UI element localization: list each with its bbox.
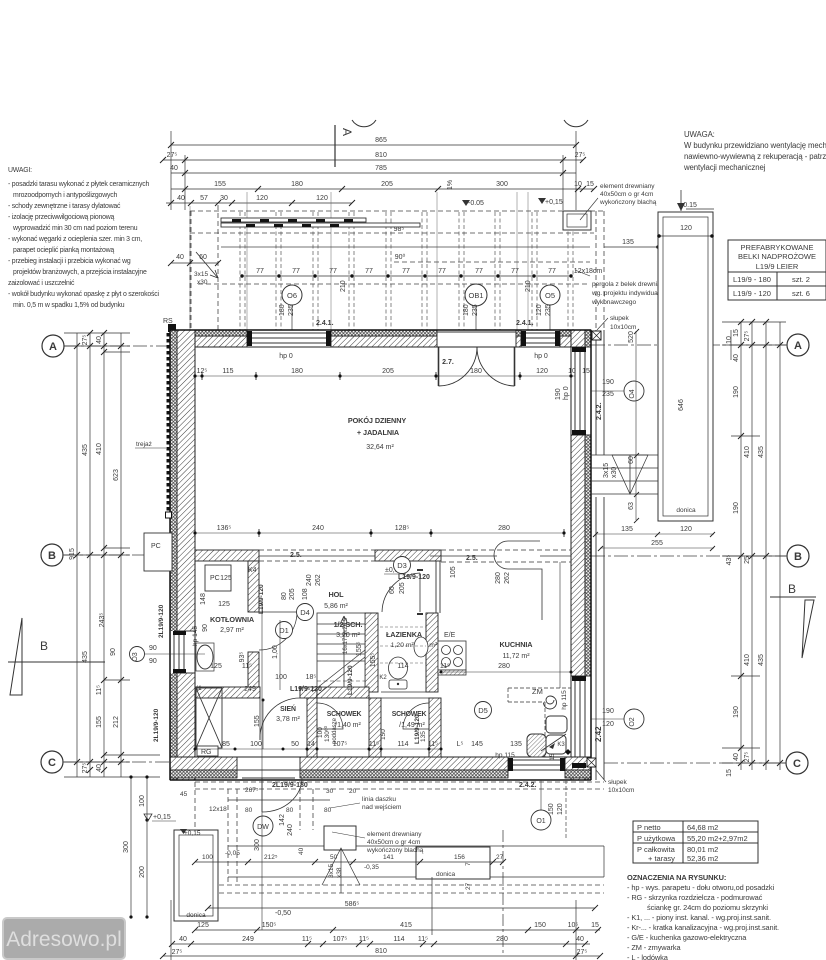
svg-text:- schody zewnętrzne i tarasy d: - schody zewnętrzne i tarasy dylatować: [8, 203, 121, 210]
svg-text:235: 235: [545, 304, 552, 316]
svg-text:100: 100: [250, 741, 262, 748]
svg-text:11⁵: 11⁵: [302, 936, 312, 943]
svg-text:linia daszku: linia daszku: [362, 796, 396, 803]
right dimension chain lines: [722, 322, 786, 770]
svg-text:180: 180: [291, 181, 303, 188]
pergola solid support line: [221, 246, 590, 248]
entry canopy lines: [228, 800, 604, 877]
svg-text:donica: donica: [436, 871, 456, 878]
interior face lines: [195, 347, 571, 757]
pergola 77 spacing dimension row: [242, 275, 571, 277]
wall living/hol left segment: [195, 550, 259, 561]
toilet: [389, 657, 408, 689]
svg-text:180: 180: [463, 304, 470, 316]
svg-text:646: 646: [678, 399, 685, 411]
left wall window O3 opening: [169, 631, 196, 673]
svg-text:27⁵: 27⁵: [167, 152, 178, 159]
bottom wall kitchen window opening: [508, 757, 565, 778]
top wall french door OB1 with arcs: [437, 330, 516, 386]
svg-text:200: 200: [139, 866, 146, 878]
top wall window W1 frame: [247, 330, 331, 347]
svg-text:2.4.1.: 2.4.1.: [316, 320, 334, 327]
grid axis C dash-dot line: [63, 761, 170, 763]
svg-text:915: 915: [69, 548, 76, 560]
svg-text:100: 100: [139, 795, 146, 807]
svg-text:zaizolować i uszczelnić: zaizolować i uszczelnić: [8, 280, 75, 287]
svg-text:hp 0: hp 0: [279, 353, 293, 360]
washbasin bathroom: [414, 637, 428, 657]
schowek1/schowek2 wall: [369, 698, 381, 757]
svg-text:B: B: [40, 639, 48, 653]
grid axis A dash-dot line: [63, 345, 787, 763]
svg-text:135: 135: [621, 526, 633, 533]
PC box outside left: [144, 533, 172, 571]
svg-text:szt. 6: szt. 6: [792, 289, 810, 298]
svg-text:410: 410: [744, 654, 751, 666]
svg-text:105: 105: [450, 566, 457, 578]
svg-text:27⁵: 27⁵: [82, 763, 89, 774]
svg-text:120: 120: [536, 304, 543, 316]
svg-text:3,78 m²: 3,78 m²: [276, 716, 300, 723]
svg-text:14: 14: [307, 741, 315, 748]
svg-text:40: 40: [733, 753, 740, 761]
left wall insulation: [170, 330, 177, 780]
hol interior dims: [248, 566, 457, 656]
svg-text:280: 280: [496, 936, 508, 943]
svg-text:B: B: [788, 582, 796, 596]
svg-text:148: 148: [200, 593, 207, 605]
svg-text:300: 300: [254, 839, 261, 851]
svg-text:donica: donica: [186, 912, 206, 919]
svg-text:156: 156: [454, 854, 465, 861]
svg-text:27⁵: 27⁵: [172, 949, 183, 956]
top wall window W2 frame: [521, 330, 560, 347]
building outer edge lines: [170, 330, 591, 780]
svg-text:40: 40: [96, 764, 103, 772]
svg-text:L19/9 LEIER: L19/9 LEIER: [756, 262, 799, 271]
svg-text:145: 145: [471, 741, 483, 748]
svg-text:POKÓJ DZIENNY: POKÓJ DZIENNY: [348, 416, 407, 425]
schowek2/kitchen wall: [429, 698, 441, 757]
svg-text:810: 810: [375, 948, 387, 955]
section B arrow right: [770, 597, 816, 658]
Kr spiral: [544, 696, 557, 709]
svg-text:PREFABRYKOWANE: PREFABRYKOWANE: [741, 243, 814, 252]
svg-text:2L19/9-120: 2L19/9-120: [158, 604, 165, 638]
grid bubble A right: [787, 334, 809, 356]
svg-text:element drewniany: element drewniany: [600, 183, 655, 190]
svg-text:10: 10: [568, 368, 576, 375]
kitchen dims: [379, 572, 572, 760]
right wall masonry: [571, 330, 585, 780]
svg-text:865: 865: [375, 137, 387, 144]
svg-text:10: 10: [726, 336, 733, 344]
svg-text:205: 205: [289, 588, 296, 600]
slupek square top right: [592, 331, 601, 340]
svg-text:205: 205: [399, 582, 406, 594]
svg-text:93⁵: 93⁵: [239, 652, 246, 663]
svg-text:205: 205: [381, 181, 393, 188]
svg-text:108: 108: [302, 588, 309, 600]
slupek label bottom right: [596, 770, 634, 794]
sien dims: [195, 748, 440, 750]
svg-text:243⁵: 243⁵: [99, 613, 106, 628]
grid bubble B right: [787, 545, 809, 567]
svg-text:142: 142: [279, 814, 286, 826]
level marks pergola: [340, 180, 563, 292]
svg-text:O4: O4: [629, 389, 636, 398]
svg-text:77: 77: [548, 268, 556, 275]
DW circle: [253, 816, 273, 836]
svg-text:141: 141: [383, 854, 394, 861]
svg-text:D1: D1: [279, 626, 289, 635]
lintel lines over hol opening: [259, 550, 375, 561]
svg-text:30: 30: [326, 788, 334, 795]
svg-text:90: 90: [110, 648, 117, 656]
grid axis B dash-dot line: [63, 554, 170, 556]
svg-text:155: 155: [96, 716, 103, 728]
svg-text:150: 150: [380, 729, 387, 740]
svg-text:77: 77: [438, 268, 446, 275]
svg-text:15: 15: [586, 181, 594, 188]
svg-text:15: 15: [582, 368, 590, 375]
svg-text:O6: O6: [287, 291, 297, 300]
svg-text:27⁵: 27⁵: [744, 752, 751, 763]
svg-text:2.42: 2.42: [594, 726, 603, 742]
svg-text:O2: O2: [629, 717, 636, 726]
svg-text:190: 190: [733, 502, 740, 514]
svg-text:280: 280: [498, 663, 510, 670]
svg-text:63: 63: [628, 502, 635, 510]
kotlownia east wall lower: [248, 652, 259, 688]
svg-text:150: 150: [548, 803, 555, 815]
svg-text:90: 90: [149, 658, 157, 665]
svg-text:hp 145: hp 145: [192, 626, 199, 646]
svg-text:E/E: E/E: [444, 632, 456, 639]
svg-text:2.5.: 2.5.: [290, 552, 302, 559]
kitchen open boundary dashed: [441, 550, 571, 562]
svg-text:KUCHNIA: KUCHNIA: [500, 640, 534, 649]
top wall insulation band: [170, 330, 591, 336]
svg-text:32,64 m²: 32,64 m²: [366, 444, 394, 451]
svg-text:40: 40: [96, 336, 103, 344]
svg-text:267⁵: 267⁵: [245, 787, 259, 794]
svg-text:212: 212: [113, 716, 120, 728]
top interior dim row: [195, 375, 575, 377]
svg-text:projektów branżowych, a przej: projektów branżowych, a przejścia instal…: [13, 269, 147, 276]
svg-text:donica: donica: [676, 507, 696, 514]
slupek label top right: [597, 315, 636, 331]
svg-text:80: 80: [245, 807, 253, 814]
svg-text:27⁵: 27⁵: [575, 152, 586, 159]
svg-text:ściankę gr. 24cm do poziomu sk: ściankę gr. 24cm do poziomu skrzynki: [647, 903, 768, 912]
svg-text:L19/9-120: L19/9-120: [347, 665, 354, 695]
svg-text:235: 235: [472, 304, 479, 316]
svg-text:120: 120: [680, 225, 692, 232]
svg-text:64,68 m2: 64,68 m2: [687, 823, 718, 832]
left dimension chain lines: [64, 333, 160, 777]
svg-text:RG: RG: [201, 749, 212, 756]
right dimension ticks: [738, 319, 783, 766]
svg-text:60: 60: [628, 456, 635, 464]
svg-text:-0,50: -0,50: [275, 910, 291, 917]
svg-text:120: 120: [557, 803, 564, 815]
40/60 dim line left: [171, 262, 218, 264]
svg-text:80: 80: [286, 807, 294, 814]
svg-text:x30: x30: [197, 279, 208, 286]
svg-text:125: 125: [197, 922, 209, 929]
wooden rail element top: [221, 218, 420, 227]
svg-text:15: 15: [726, 769, 733, 777]
svg-text:125: 125: [218, 601, 230, 608]
svg-text:586⁵: 586⁵: [345, 901, 360, 908]
svg-text:180: 180: [291, 368, 303, 375]
svg-text:ZM: ZM: [532, 687, 543, 696]
right wall kitchen window O2 opening: [570, 676, 592, 768]
svg-text:40x50cm o gr 4cm: 40x50cm o gr 4cm: [600, 191, 653, 198]
terrace stair arrow: [322, 848, 360, 893]
svg-text:240: 240: [312, 525, 324, 532]
svg-text:wykonawczego: wykonawczego: [591, 299, 636, 306]
terrace dim line: [195, 861, 503, 863]
svg-text:120: 120: [316, 195, 328, 202]
svg-text:nad wejściem: nad wejściem: [362, 804, 401, 811]
O2 window circle right: [624, 709, 644, 729]
svg-text:10x10cm: 10x10cm: [610, 324, 636, 331]
2.5 lintel labels: [290, 552, 478, 562]
svg-text:- wykonać węgarki z ocieplenia: - wykonać węgarki z ocieplenia szer. min…: [8, 236, 142, 243]
svg-text:155: 155: [254, 715, 261, 727]
area table bottom-right: [633, 821, 758, 863]
leader lines from bubbles to wall: [292, 305, 550, 330]
extension lines from wall openings up to dim rows: [190, 192, 528, 330]
svg-text:11⁵: 11⁵: [242, 663, 252, 670]
svg-text:2.4.2.: 2.4.2.: [596, 402, 603, 420]
svg-text:810: 810: [375, 152, 387, 159]
window jamb blocks: [173, 331, 586, 771]
svg-text:212⁵: 212⁵: [264, 854, 278, 861]
svg-text:77: 77: [365, 268, 373, 275]
bathroom dims: [370, 653, 450, 670]
svg-text:3x15: 3x15: [194, 271, 208, 278]
svg-text:hp 115: hp 115: [561, 690, 568, 710]
svg-text:57: 57: [200, 195, 208, 202]
terrace dashed outline: [195, 782, 604, 893]
svg-text:90: 90: [202, 624, 209, 632]
svg-text:- posadzki tarasu wykonać z pł: - posadzki tarasu wykonać z płytek ceram…: [8, 181, 149, 188]
kitchen counter dashed: [508, 688, 571, 757]
svg-text:parapet ocieplić pianką montaż: parapet ocieplić pianką montażową: [13, 247, 114, 254]
svg-text:11⁵: 11⁵: [369, 741, 379, 748]
svg-text:240: 240: [287, 824, 294, 836]
svg-text:- Kr-... - kratka kanalizacyjn: - Kr-... - kratka kanalizacyjna - wg.pro…: [627, 923, 779, 932]
svg-text:410: 410: [744, 446, 751, 458]
svg-text:435: 435: [758, 446, 765, 458]
svg-text:280: 280: [495, 572, 502, 584]
svg-text:2L19/9-120: 2L19/9-120: [153, 708, 160, 742]
sien north wall right piece: [300, 687, 317, 698]
svg-text:25: 25: [744, 556, 751, 564]
svg-text:D4: D4: [300, 608, 310, 617]
bottom wall insulation: [170, 770, 591, 778]
svg-text:100: 100: [317, 727, 324, 738]
svg-text:A: A: [340, 128, 354, 136]
svg-text:L19/9-120: L19/9-120: [290, 686, 322, 693]
svg-text:785: 785: [375, 165, 387, 172]
svg-text:410: 410: [96, 443, 103, 455]
bottom wall entry door opening: [237, 757, 300, 778]
svg-text:wentylacji mechanicznej: wentylacji mechanicznej: [683, 163, 766, 172]
svg-text:ŁAZIENKA: ŁAZIENKA: [386, 630, 423, 639]
svg-text:114: 114: [397, 741, 408, 748]
left wall masonry: [177, 330, 195, 780]
svg-text:SCHOWEK: SCHOWEK: [392, 711, 427, 718]
svg-text:415: 415: [400, 922, 412, 929]
svg-text:210: 210: [525, 280, 532, 292]
svg-text:+0,15: +0,15: [545, 199, 563, 206]
svg-text:11⁵: 11⁵: [440, 663, 450, 670]
svg-text:wyprowadzić min 30 cm nad pozi: wyprowadzić min 30 cm nad poziom terenu: [12, 225, 138, 232]
svg-text:135: 135: [420, 731, 427, 742]
svg-text:100: 100: [202, 854, 213, 861]
svg-text:2.4.2.: 2.4.2.: [519, 782, 537, 789]
svg-text:155: 155: [214, 181, 226, 188]
svg-text:30: 30: [220, 195, 228, 202]
svg-text:-0.05: -0.05: [468, 200, 484, 207]
svg-text:K2: K2: [379, 675, 387, 681]
svg-text:-0,05: -0,05: [225, 850, 240, 857]
left dimension labels (rotated): [69, 335, 120, 774]
svg-text:27⁵: 27⁵: [577, 949, 588, 956]
lintel labels: [158, 574, 430, 744]
svg-text:nawiewno-wywiewną z rekuperacj: nawiewno-wywiewną z rekuperacją - patrz: [684, 152, 826, 161]
svg-text:85: 85: [222, 741, 230, 748]
svg-text:16x17,5x26,5: 16x17,5x26,5: [343, 617, 349, 654]
svg-text:136⁵: 136⁵: [217, 525, 232, 532]
svg-text:150: 150: [534, 922, 546, 929]
svg-text:3x15: 3x15: [603, 463, 610, 478]
svg-text:27: 27: [465, 882, 472, 890]
svg-text:235: 235: [288, 304, 295, 316]
svg-text:77: 77: [402, 268, 410, 275]
bottom wall masonry piers: [170, 757, 591, 770]
watermark Adresowo.pl: [2, 917, 126, 960]
svg-text:180: 180: [279, 304, 286, 316]
svg-text:3x15: 3x15: [328, 864, 335, 878]
kitchen counter edge: [559, 562, 561, 688]
svg-text:+0,15: +0,15: [184, 830, 201, 837]
notes text block UWAGI top-left: [8, 167, 160, 309]
svg-text:HOL: HOL: [328, 590, 344, 599]
svg-text:/1,40 m²: /1,40 m²: [335, 722, 361, 729]
svg-text:słupek: słupek: [608, 779, 628, 786]
kitchen sink group: [527, 734, 571, 757]
svg-text:7: 7: [465, 862, 472, 866]
svg-text:45: 45: [180, 791, 188, 798]
svg-text:- izolację przeciwwilgociową p: - izolację przeciwwilgociową pionową: [8, 214, 115, 221]
bottom-left vertical chains: [131, 777, 147, 917]
top dimension ticks: [160, 142, 597, 206]
svg-text:K3: K3: [557, 742, 565, 748]
svg-text:120: 120: [680, 526, 692, 533]
svg-text:BELKI NADPROŻOWE: BELKI NADPROŻOWE: [738, 252, 816, 261]
svg-text:249: 249: [242, 936, 254, 943]
svg-text:128⁵: 128⁵: [395, 525, 410, 532]
top dimension rows: [163, 131, 594, 210]
top wall masonry piers: [170, 336, 591, 347]
living bottom interior dim row: [195, 532, 564, 534]
svg-text:RS: RS: [163, 318, 173, 325]
svg-text:249: 249: [244, 686, 256, 693]
cooker G/E 4 rings: [438, 641, 466, 675]
svg-text:UWAGI:: UWAGI:: [8, 167, 32, 174]
svg-text:55,20 m2+2,97m2: 55,20 m2+2,97m2: [687, 834, 748, 843]
svg-text:- wokół budynku wykonać opaskę: - wokół budynku wykonać opaskę z płyt o …: [8, 291, 160, 298]
svg-text:K1: K1: [194, 686, 202, 692]
svg-text:77: 77: [256, 268, 264, 275]
svg-text:szt. 2: szt. 2: [792, 275, 810, 284]
svg-text:40: 40: [179, 936, 187, 943]
grid bubble C right: [786, 752, 808, 774]
svg-text:77: 77: [475, 268, 483, 275]
svg-text:x30: x30: [611, 467, 618, 478]
svg-text:90: 90: [149, 645, 157, 652]
svg-text:PC: PC: [151, 543, 161, 550]
svg-text:min. 0,5 m w spadku 1,5% od bu: min. 0,5 m w spadku 1,5% od budynku: [13, 302, 125, 309]
wall living/hol right segment: [375, 550, 441, 561]
svg-text:77: 77: [511, 268, 519, 275]
svg-text:O5: O5: [545, 291, 555, 300]
svg-text:L19/9-120: L19/9-120: [398, 574, 430, 581]
RG cabinet with X: [196, 688, 222, 756]
washtub kotlownia: [197, 645, 213, 669]
O1 circle bottom: [540, 780, 542, 810]
svg-text:- ZM - zmywarka: - ZM - zmywarka: [627, 943, 682, 952]
schowek2 north thin wall: [381, 692, 429, 698]
sien interior vertical dim: [262, 700, 264, 749]
bathroom/kitchen wall lower: [426, 613, 438, 692]
svg-text:KOTŁOWNIA: KOTŁOWNIA: [210, 615, 255, 624]
right wall tall glass door O4 opening: [570, 347, 592, 435]
notes text block UWAGA top-right: [683, 130, 826, 172]
svg-text:L19/9-120: L19/9-120: [258, 584, 265, 614]
O4 window circle right: [624, 381, 644, 401]
svg-text:1,00: 1,00: [272, 645, 279, 659]
svg-text:190: 190: [555, 388, 562, 400]
svg-text:27: 27: [496, 854, 504, 861]
door ref circles D1 D3 D4 D5: [276, 557, 492, 719]
svg-text:114: 114: [397, 663, 408, 670]
kotlownia east wall upper: [248, 561, 259, 612]
right wall insulation: [585, 330, 591, 780]
schowek1 door arc: [317, 703, 343, 729]
svg-text:18⁵: 18⁵: [306, 674, 317, 681]
svg-text:40: 40: [177, 195, 185, 202]
svg-text:80: 80: [281, 592, 288, 600]
prefab lintel table top-right: [728, 240, 826, 300]
O3 window circle left: [130, 647, 145, 662]
svg-text:80,01 m2: 80,01 m2: [687, 845, 718, 854]
svg-text:- hp - wys. parapetu - dołu ot: - hp - wys. parapetu - dołu otworu,od po…: [627, 883, 774, 892]
svg-text:1%: 1%: [447, 180, 454, 190]
svg-text:OB1: OB1: [468, 291, 483, 300]
svg-text:120: 120: [256, 195, 268, 202]
svg-text:mrozoodpornych i antypoślizgow: mrozoodpornych i antypoślizgowych: [13, 192, 117, 199]
520 dim vertical right of wall: [596, 331, 714, 548]
schowek2 door arc: [403, 703, 429, 729]
svg-text:135: 135: [510, 741, 522, 748]
pergola dashed roof outline: [190, 205, 604, 330]
